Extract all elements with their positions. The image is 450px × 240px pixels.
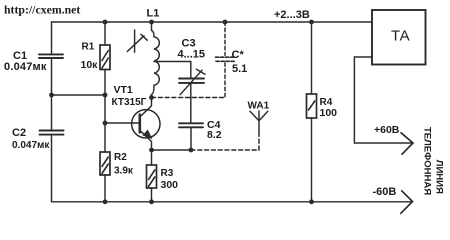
node top C* [223,20,228,25]
node top L1 [149,20,154,25]
resistor R1 [100,45,110,70]
svg-text:3.9к: 3.9к [114,166,134,177]
svg-text:C*: C* [232,49,245,61]
capacitor C2 [40,131,64,135]
capacitor C* dashed column [224,22,226,55]
node R1 bottom [103,93,108,98]
transistor Q1 VT1 circle [132,110,160,138]
svg-text:-60В: -60В [373,186,397,198]
arrow +60V [401,133,413,154]
svg-text:R1: R1 [82,42,95,53]
resistor R4 [307,94,317,118]
svg-text:R2: R2 [114,152,127,163]
box TA telephone set [372,10,426,65]
svg-text:4...15: 4...15 [178,49,206,61]
svg-text:http://cxem.net: http://cxem.net [4,2,80,16]
svg-text:L1: L1 [147,8,160,20]
svg-text:ТЕЛЕФОННАЯ: ТЕЛЕФОННАЯ [422,127,433,195]
svg-text:+2...3В: +2...3В [274,9,310,21]
svg-text:8.2: 8.2 [207,129,222,141]
wire C4 to emitter row [190,128,192,150]
node bottom R3 [149,199,154,204]
node base [103,121,108,126]
svg-text:VT1: VT1 [114,84,133,96]
node bottom R4 [309,199,314,204]
arrow -60V [401,191,413,214]
wire bottom rail [52,201,413,203]
capacitor C3 adjust arrow [180,69,205,95]
wire C2 column [51,95,53,202]
transistor VT1 base bar [139,115,142,133]
node collector coil [149,95,154,100]
node top R4 [309,20,314,25]
svg-text:ТА: ТА [391,28,410,45]
inductor L1 adjust arrow [127,34,147,51]
wire +60V line [354,57,412,143]
transistor VT1 emitter [140,130,152,150]
resistor R2 [100,152,110,175]
wire base lead [105,122,139,124]
transistor VT1 emitter arrow [143,130,151,138]
wire dashed C* bottom to coil node [152,97,226,99]
wire top rail [52,21,373,23]
svg-text:C2: C2 [12,127,26,139]
svg-text:WA1: WA1 [248,101,270,112]
svg-text:КТ315Г: КТ315Г [112,97,147,108]
svg-text:0.047мк: 0.047мк [12,140,50,151]
node top R1 [103,20,108,25]
capacitor C3 plates [179,79,204,83]
resistor R3 [147,165,157,188]
svg-text:R3: R3 [161,168,174,179]
inductor L1 core [134,30,136,52]
wire C1 column [51,22,53,95]
capacitor C* plates [216,57,237,61]
antenna WA1 [250,111,268,132]
transistor VT1 collector [140,98,152,118]
wire dashed emitter row to antenna [191,149,259,151]
wire emitter node row [152,149,192,151]
capacitor C1 [39,54,63,58]
node emitter [149,148,154,153]
wire R3 column [151,150,153,202]
wire dashed antenna column [258,132,260,150]
wire R4 column [311,22,313,202]
wire node row y95 [52,94,106,96]
wire R2 column [104,95,106,202]
capacitor C4 plates [179,123,203,127]
wire R1 column [104,22,106,95]
node C4 bottom [189,148,194,153]
svg-text:10к: 10к [81,59,99,71]
node bottom R2 [103,199,108,204]
svg-text:ЛИНИЯ: ЛИНИЯ [434,160,445,194]
node C1 bottom [49,93,54,98]
node dots [49,20,314,205]
inductor L1 coil [152,22,160,98]
svg-text:+60В: +60В [374,124,400,136]
svg-text:100: 100 [320,107,338,119]
wire C3 to C4 [190,84,192,123]
svg-text:300: 300 [161,179,179,191]
svg-text:0.047мк: 0.047мк [4,61,47,73]
svg-text:5.1: 5.1 [232,63,247,75]
wire coil tap to C3 [154,62,191,78]
